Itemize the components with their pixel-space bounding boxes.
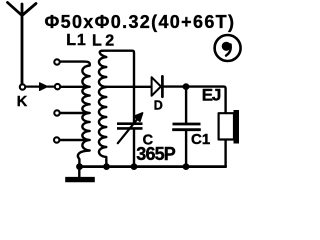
svg-text:D: D [154, 99, 163, 113]
svg-text:L2: L2 [92, 33, 114, 50]
svg-text:EJ: EJ [202, 86, 222, 105]
svg-text:Φ50xΦ0.32(40+66T): Φ50xΦ0.32(40+66T) [45, 12, 235, 32]
svg-text:365P: 365P [136, 144, 176, 164]
svg-text:L1: L1 [66, 32, 86, 49]
svg-text:K: K [17, 94, 28, 110]
svg-text:C1: C1 [191, 131, 210, 148]
